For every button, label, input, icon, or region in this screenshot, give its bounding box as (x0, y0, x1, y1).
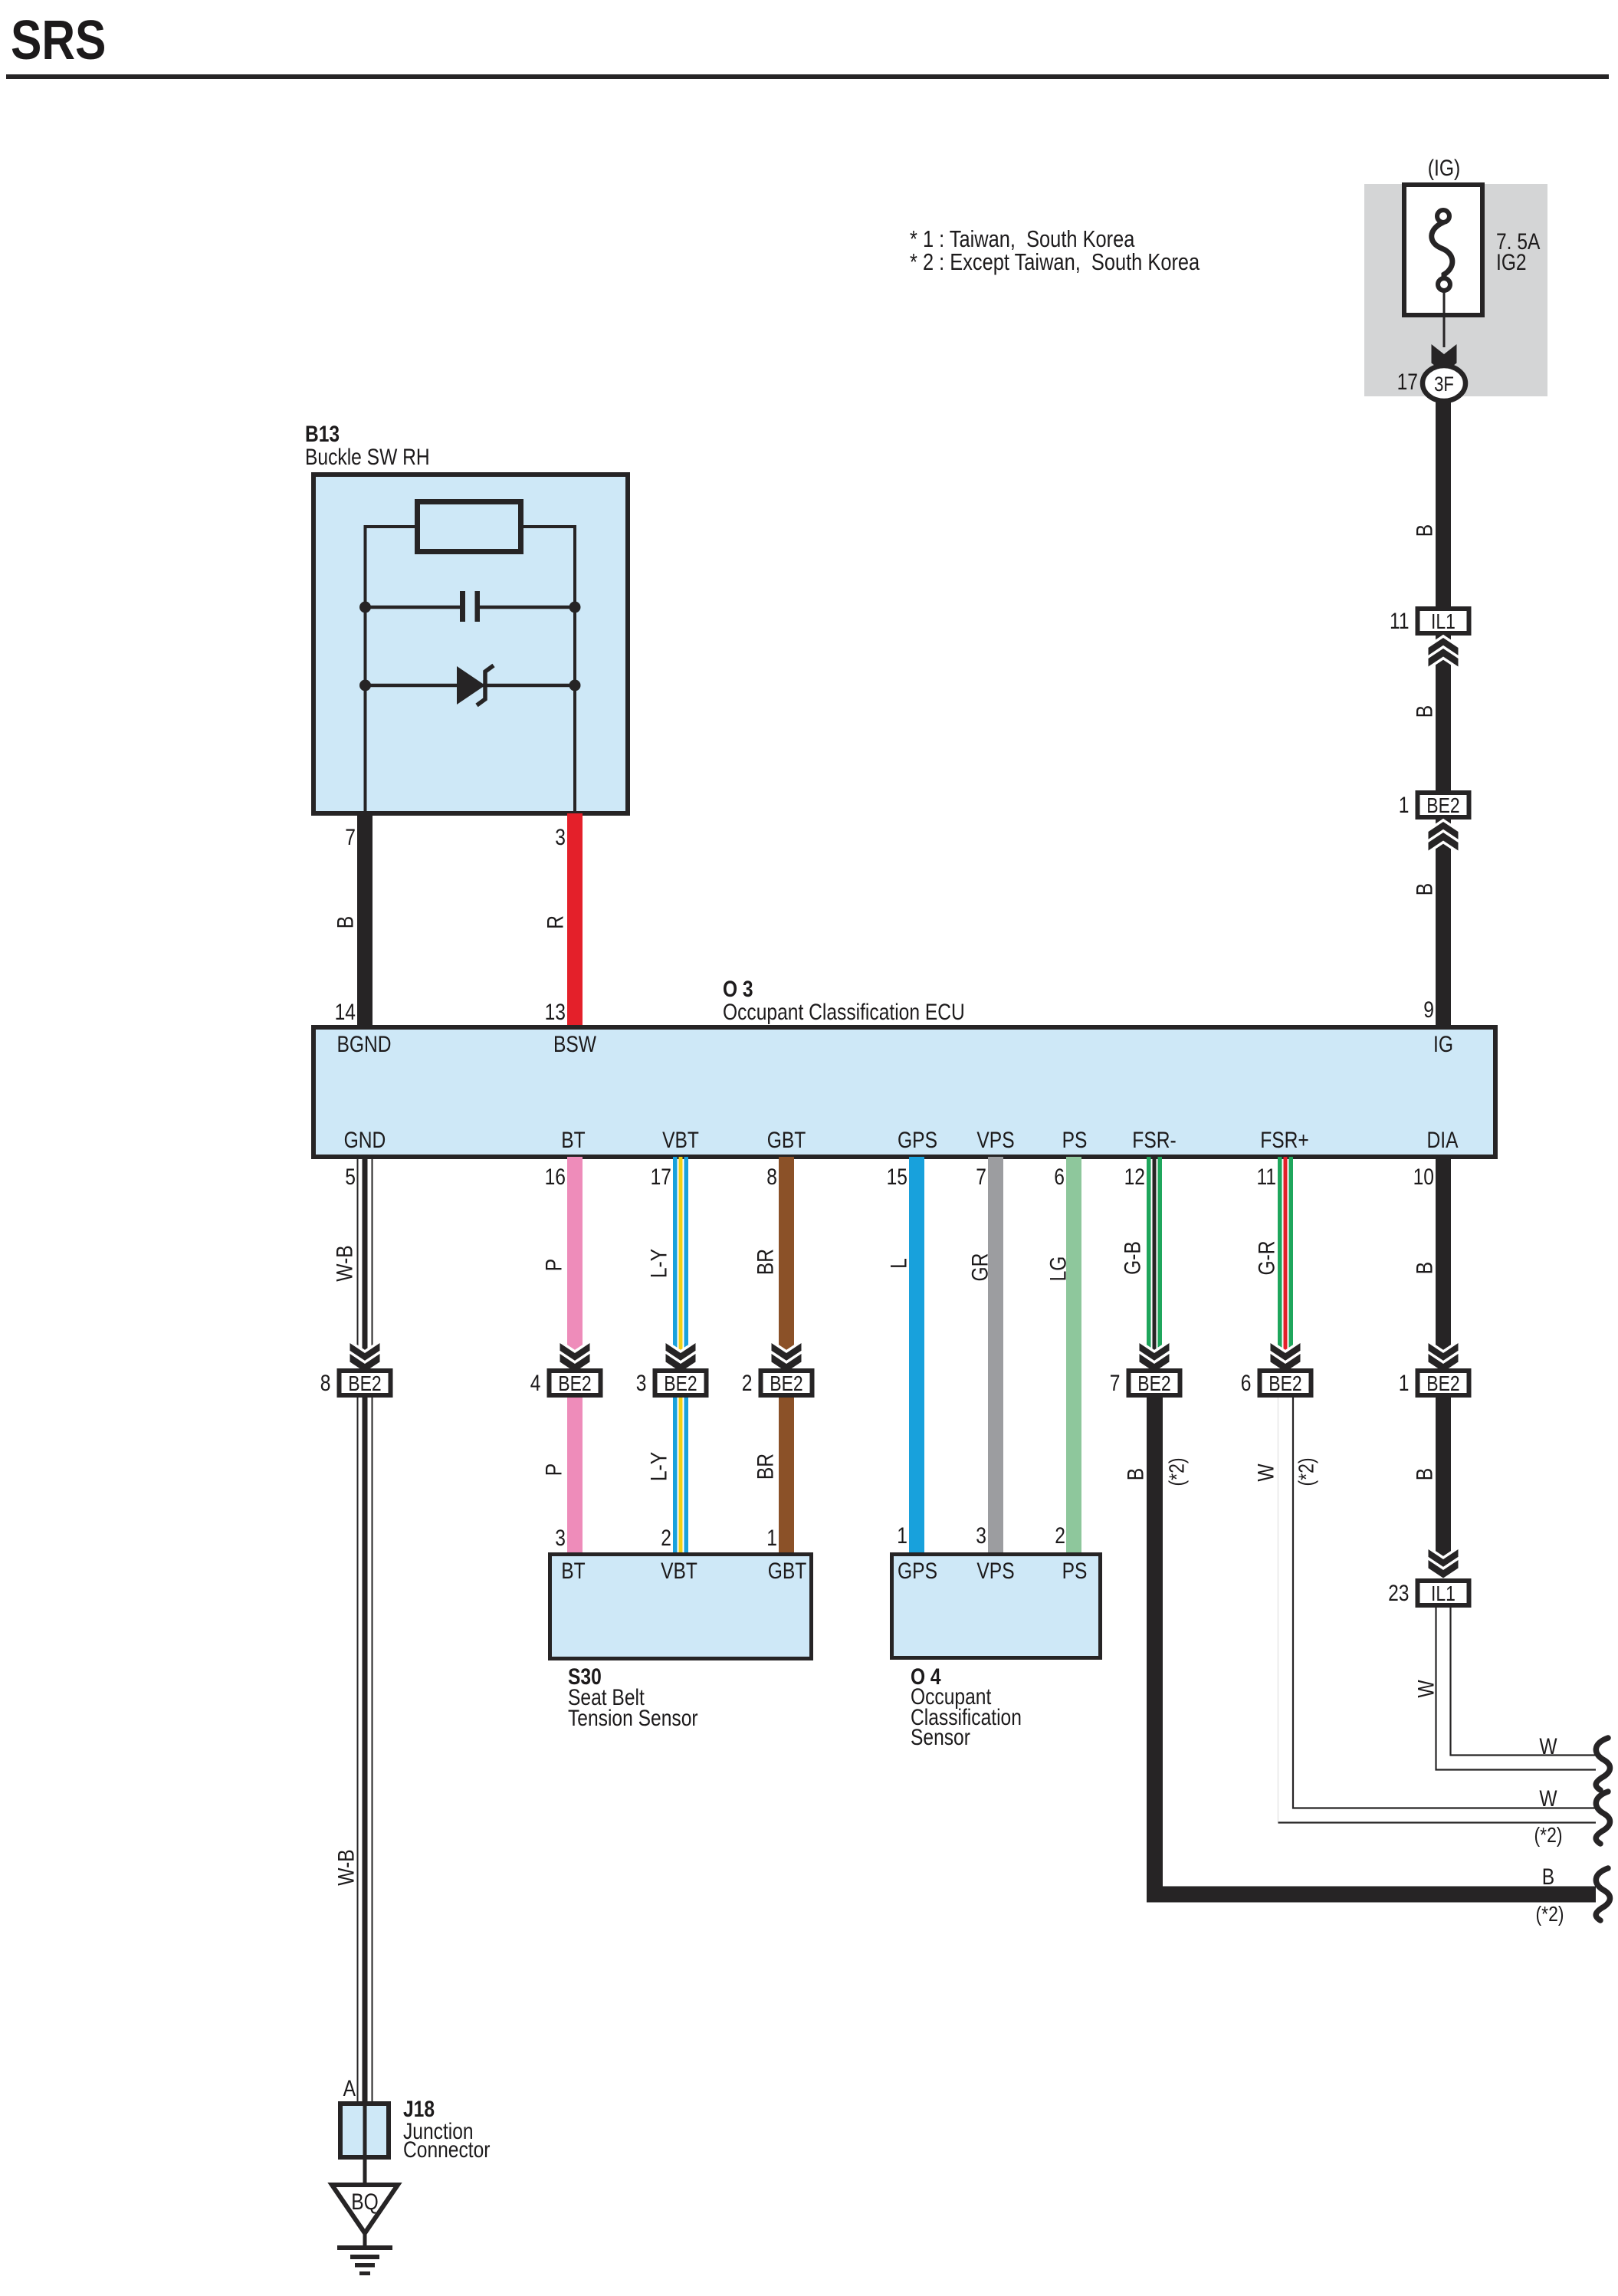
svg-text:L-Y: L-Y (647, 1249, 672, 1278)
svg-text:8: 8 (320, 1371, 331, 1396)
wire switch right branch (523, 527, 575, 813)
svg-text:15: 15 (887, 1164, 907, 1190)
arrow down into BE2 (G-R wire) (1271, 1343, 1301, 1362)
wire switch left branch (366, 527, 415, 813)
svg-text:W: W (1414, 1680, 1439, 1698)
svg-text:BE2: BE2 (1426, 1371, 1459, 1395)
continuation squiggle W wire 1 (1596, 1738, 1610, 1790)
svg-text:BGND: BGND (336, 1032, 391, 1057)
arrow down into BE2 (P wire) (560, 1343, 590, 1362)
svg-text:BR: BR (753, 1249, 779, 1275)
svg-text:B: B (1413, 1262, 1438, 1274)
svg-text:BE2: BE2 (770, 1371, 802, 1395)
wire G-B from O3 FSR- (1147, 1157, 1151, 1360)
ground stem (363, 2231, 367, 2245)
switch body rectangle in B13 (418, 502, 521, 552)
wire LG from O3 PS (1066, 1157, 1081, 1554)
svg-text:FSR-: FSR- (1132, 1128, 1176, 1153)
connector BE2 pin 8 box (340, 1371, 391, 1395)
svg-text:BE2: BE2 (664, 1371, 697, 1395)
svg-text:(*2): (*2) (1536, 1902, 1564, 1926)
svg-text:(*2): (*2) (1165, 1458, 1189, 1486)
wire B from B13 pin 7 (357, 813, 373, 1027)
svg-text:(*2): (*2) (1534, 1823, 1563, 1847)
ground point BQ triangle (332, 2185, 398, 2233)
svg-text:B: B (1413, 883, 1438, 895)
svg-text:VPS: VPS (976, 1559, 1014, 1584)
arrow down into BE2 (L-Y wire) (666, 1343, 696, 1362)
arrow down into BE2 (BR wire) (772, 1343, 802, 1362)
wire W-B from O3 GND (357, 1157, 359, 1360)
svg-text:3: 3 (555, 825, 566, 850)
svg-text:W: W (1254, 1463, 1279, 1482)
connector BE2 pin 6 box (1260, 1371, 1311, 1395)
arrow down into BE2 (W-B wire) (350, 1343, 380, 1362)
svg-text:10: 10 (1413, 1164, 1434, 1190)
wire W (*2) from BE2 pin 6 right line (1293, 1398, 1596, 1808)
connector IL1 pin 23 box (1418, 1581, 1469, 1605)
continuation squiggle B wire (1596, 1868, 1610, 1920)
component S30 Seat Belt Tension Sensor body (550, 1555, 812, 1659)
svg-text:* 2 : Except Taiwan, South Ko: * 2 : Except Taiwan, South Korea (910, 248, 1200, 275)
wire B IL1 to BE2 (1436, 636, 1451, 793)
svg-text:BE2: BE2 (1137, 1371, 1170, 1395)
svg-text:B13: B13 (305, 422, 340, 447)
component B13 Buckle SW RH body (313, 475, 628, 813)
svg-text:PS: PS (1062, 1128, 1088, 1153)
svg-text:BE2: BE2 (348, 1371, 381, 1395)
svg-text:8: 8 (766, 1164, 777, 1190)
svg-text:R: R (543, 915, 569, 929)
svg-text:1: 1 (897, 1523, 907, 1549)
svg-text:3F: 3F (1434, 373, 1454, 396)
svg-text:L-Y: L-Y (647, 1452, 672, 1481)
svg-text:W: W (1539, 1786, 1557, 1812)
svg-text:G-B: G-B (1121, 1241, 1146, 1275)
svg-text:Occupant Classification ECU: Occupant Classification ECU (723, 1000, 965, 1025)
svg-text:3: 3 (636, 1371, 647, 1396)
svg-text:IG2: IG2 (1496, 250, 1527, 275)
wire L-Y BE2 to S30 (673, 1398, 678, 1554)
svg-text:BR: BR (753, 1453, 779, 1480)
fuse terminal circle bottom (1438, 278, 1450, 291)
svg-text:BQ: BQ (351, 2189, 379, 2215)
connector BE2 pin 3 box (655, 1371, 707, 1395)
svg-text:1: 1 (766, 1526, 777, 1551)
svg-text:GPS: GPS (898, 1559, 937, 1584)
svg-text:DIA: DIA (1427, 1128, 1459, 1153)
svg-text:6: 6 (1054, 1164, 1065, 1190)
wire W-B BE2 to J18 (357, 1398, 359, 2104)
svg-text:2: 2 (742, 1371, 753, 1396)
junction node dot left diode (359, 680, 371, 691)
svg-text:16: 16 (545, 1164, 566, 1190)
fuse 7.5A IG2 body (1404, 185, 1482, 315)
connector BE2 pin 2 box (761, 1371, 812, 1395)
svg-text:GPS: GPS (898, 1128, 937, 1153)
wire R from B13 pin 3 (567, 813, 583, 1027)
svg-text:B: B (1124, 1468, 1149, 1480)
svg-text:17: 17 (651, 1164, 671, 1190)
connector IL1 upper box (1418, 609, 1469, 633)
svg-text:B: B (1413, 1468, 1438, 1480)
svg-text:BE2: BE2 (1268, 1371, 1301, 1395)
ground bar 3 (355, 2263, 375, 2268)
svg-text:P: P (542, 1259, 567, 1271)
ground bar 2 (350, 2255, 379, 2259)
svg-text:7: 7 (1110, 1371, 1121, 1396)
svg-text:3: 3 (555, 1526, 566, 1551)
svg-text:11: 11 (1257, 1164, 1277, 1190)
svg-text:VBT: VBT (662, 1128, 699, 1153)
wire fuse to connector 3F (1443, 291, 1446, 347)
wire L from O3 GPS (909, 1157, 924, 1554)
svg-text:VPS: VPS (976, 1128, 1014, 1153)
continuation squiggle W wire 2 (1596, 1792, 1610, 1844)
zener diode D anode triangle (457, 666, 485, 705)
junction node dot right diode (569, 680, 581, 691)
component O4 Occupant Classification Sensor body (892, 1555, 1101, 1658)
connector 3F ellipse (1423, 366, 1465, 401)
svg-text:Buckle SW RH: Buckle SW RH (305, 445, 430, 470)
wire BR from O3 GBT (779, 1157, 794, 1360)
capacitor C plate left (460, 591, 465, 622)
connector BE2 pin 4 box (550, 1371, 601, 1395)
wire capacitor row right (480, 606, 575, 609)
wire W (*2) lower outline to right edge (1278, 1821, 1597, 1823)
wire B from 3F to IL1 (1436, 400, 1451, 609)
svg-text:SRS: SRS (11, 10, 106, 71)
svg-text:14: 14 (335, 1000, 356, 1025)
wire W from IL1 23 right line (1451, 1608, 1597, 1756)
fuse element S-curve (1432, 222, 1452, 278)
svg-text:BSW: BSW (553, 1032, 597, 1057)
wire L-Y from O3 VBT (673, 1157, 678, 1360)
svg-text:GBT: GBT (768, 1559, 807, 1584)
svg-text:B: B (333, 916, 359, 928)
arrow up below BE2 right upper (1429, 822, 1459, 840)
arrow down into BE2 (G-B wire) (1140, 1343, 1170, 1362)
wire W from IL1 23 left line (1436, 1608, 1597, 1770)
connector BE2 pin 1 box (1418, 1371, 1469, 1395)
wire B BE2 to ECU pin 9 (1436, 820, 1451, 1027)
svg-text:Tension Sensor: Tension Sensor (568, 1706, 698, 1731)
svg-text:LG: LG (1046, 1256, 1072, 1282)
wire P BE2 to S30 (567, 1398, 583, 1554)
svg-text:(IG): (IG) (1428, 156, 1460, 181)
svg-text:4: 4 (530, 1371, 541, 1396)
svg-text:BE2: BE2 (558, 1371, 591, 1395)
zener diode D cathode bar (477, 665, 494, 705)
svg-text:23: 23 (1388, 1581, 1409, 1606)
svg-text:9: 9 (1423, 997, 1434, 1023)
ground bar 1 (337, 2245, 392, 2250)
capacitor C plate right (475, 591, 481, 622)
svg-text:(*2): (*2) (1295, 1458, 1318, 1486)
svg-text:3: 3 (976, 1523, 986, 1549)
svg-text:L: L (887, 1258, 912, 1269)
junction node dot left capacitor (359, 602, 371, 613)
svg-text:IG: IG (1433, 1032, 1453, 1057)
wire B BE2 pin1 to IL1 23 (1436, 1398, 1451, 1575)
wire B from O3 DIA (1436, 1157, 1451, 1371)
junction node dot right capacitor (569, 602, 581, 613)
wire capacitor row left (366, 606, 461, 609)
svg-text:6: 6 (1241, 1371, 1252, 1396)
svg-text:BE2: BE2 (1426, 793, 1459, 817)
svg-text:P: P (542, 1463, 567, 1476)
arrow down into BE2 (B DIA wire) (1429, 1343, 1459, 1362)
svg-text:7: 7 (976, 1164, 986, 1190)
svg-text:BT: BT (561, 1559, 585, 1584)
svg-text:2: 2 (661, 1526, 671, 1551)
wire BR BE2 to S30 (779, 1398, 794, 1554)
svg-text:1: 1 (1399, 793, 1410, 818)
svg-text:GR: GR (968, 1253, 993, 1282)
wire J18 to ground (363, 2160, 367, 2185)
connector BE2 pin 7 box (1129, 1371, 1180, 1395)
arrow up below IL1 upper (1429, 638, 1459, 656)
svg-text:GND: GND (344, 1128, 386, 1153)
svg-text:12: 12 (1124, 1164, 1145, 1190)
title underline rule (6, 74, 1609, 79)
svg-text:7: 7 (345, 825, 356, 850)
svg-text:B: B (1413, 705, 1438, 718)
svg-text:17: 17 (1397, 370, 1418, 395)
svg-text:PS: PS (1062, 1559, 1088, 1584)
svg-text:Sensor: Sensor (911, 1725, 970, 1750)
svg-text:2: 2 (1055, 1523, 1065, 1549)
svg-text:IL1: IL1 (1431, 1582, 1456, 1605)
svg-text:Connector: Connector (403, 2137, 491, 2163)
fuse terminal circle top (1437, 210, 1449, 222)
svg-text:W: W (1539, 1734, 1557, 1759)
svg-text:GBT: GBT (767, 1128, 806, 1153)
junction block gray background (1364, 184, 1547, 396)
svg-text:W-B: W-B (334, 1849, 359, 1885)
svg-text:BT: BT (561, 1128, 585, 1153)
svg-text:IL1: IL1 (1431, 609, 1456, 633)
svg-text:W-B: W-B (333, 1245, 358, 1281)
svg-text:O 3: O 3 (723, 977, 753, 1002)
arrow down into 3F (1432, 344, 1457, 364)
wire GR from O3 VPS (988, 1157, 1003, 1554)
wire zener diode row (366, 684, 576, 688)
svg-text:G-R: G-R (1255, 1240, 1280, 1275)
component O3 Occupant Classification ECU body (313, 1027, 1495, 1157)
arrow down into IL1 23 (1429, 1549, 1459, 1568)
svg-text:B: B (1542, 1864, 1554, 1890)
wire W (*2) faint left outline (1278, 1398, 1281, 1822)
wire G-R from O3 FSR+ (1278, 1157, 1282, 1360)
svg-text:13: 13 (545, 1000, 566, 1025)
connector BE2 right upper box (1418, 793, 1469, 817)
svg-text:A: A (343, 2076, 356, 2101)
J18 internal bus bar (363, 2104, 367, 2157)
wire P from O3 BT (567, 1157, 583, 1360)
ground bar 4 (359, 2271, 370, 2275)
svg-text:5: 5 (345, 1164, 356, 1190)
svg-text:11: 11 (1390, 609, 1410, 634)
wire B (*2) from BE2 pin 7 to right edge (1155, 1398, 1597, 1894)
svg-text:FSR+: FSR+ (1260, 1128, 1309, 1153)
svg-text:VBT: VBT (661, 1559, 697, 1584)
component J18 Junction Connector body (340, 2104, 389, 2157)
svg-text:B: B (1413, 524, 1438, 537)
svg-text:1: 1 (1399, 1371, 1410, 1396)
